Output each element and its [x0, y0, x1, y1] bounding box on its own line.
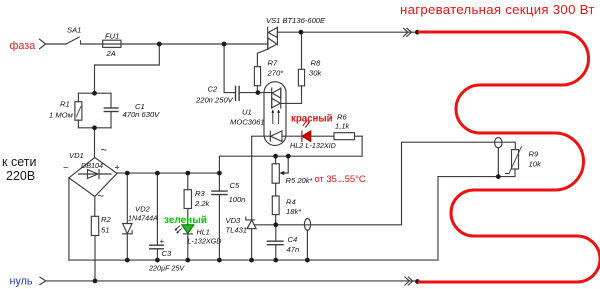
wire нуль chevron: [40, 277, 46, 284]
svg-text:VD3: VD3: [226, 216, 242, 225]
svg-text:C4: C4: [288, 235, 298, 244]
svg-text:+: +: [115, 163, 120, 173]
svg-text:VD2: VD2: [135, 205, 151, 214]
svg-text:220µF 25V: 220µF 25V: [148, 264, 185, 273]
wire opto LED cathode to TL431: [252, 136, 271, 220]
svg-text:R8: R8: [311, 59, 321, 68]
svg-text:2,2k: 2,2k: [194, 199, 211, 208]
wire switch to fuse: [81, 41, 103, 44]
wire fuse to triac: [121, 43, 268, 45]
svg-text:~: ~: [98, 191, 104, 203]
wire to bridge: [94, 128, 96, 158]
capacitor C1: [110, 93, 112, 108]
svg-text:220n 250V: 220n 250V: [195, 96, 234, 105]
svg-text:2A: 2A: [106, 49, 116, 58]
connector oval X1: [304, 219, 310, 231]
svg-text:зеленый: зеленый: [164, 215, 207, 226]
ref wire: [254, 224, 401, 226]
wire phase to switch: [46, 43, 67, 45]
common rail: [69, 259, 438, 261]
svg-text:L-132XGD: L-132XGD: [188, 237, 222, 246]
svg-text:220В: 220В: [6, 169, 35, 183]
svg-text:DB104: DB104: [81, 161, 103, 170]
svg-text:470n 630V: 470n 630V: [123, 110, 161, 119]
chevrons to heater top: [404, 28, 412, 36]
svg-text:30k: 30k: [309, 69, 322, 78]
chevrons to heater bottom: [405, 277, 413, 285]
switch SA1: [66, 37, 79, 44]
svg-text:красный: красный: [291, 113, 333, 124]
resistor R2: [91, 216, 98, 235]
node R1C1 bottom: [78, 127, 111, 129]
svg-text:R3: R3: [195, 189, 205, 198]
svg-text:R1: R1: [60, 100, 70, 109]
svg-text:10k: 10k: [529, 160, 542, 169]
svg-text:VS1 BT136-600E: VS1 BT136-600E: [266, 16, 326, 25]
opto coupling arrows: [273, 112, 279, 124]
zener VD2: [126, 173, 128, 223]
capacitor C2 branch: [224, 44, 235, 93]
wire jog to R1C1: [95, 44, 160, 93]
svg-text:1 МОм: 1 МОм: [49, 110, 74, 119]
wire bridge plus to rail: [117, 172, 219, 174]
bridge rectifier VD1: [69, 158, 117, 197]
svg-text:~: ~: [101, 145, 107, 157]
triac VS1: [267, 27, 269, 49]
svg-text:100n: 100n: [229, 195, 246, 204]
LED HL1 emission arrows: [176, 226, 182, 232]
svg-text:HL2: HL2: [290, 141, 303, 150]
wire triac out: [277, 31, 415, 33]
svg-text:1,1k: 1,1k: [335, 122, 351, 131]
svg-text:FU1: FU1: [105, 32, 119, 41]
fuse FU1: [103, 40, 121, 47]
TL431 VD3: [246, 217, 255, 220]
svg-text:U1: U1: [242, 107, 252, 116]
wire bridge ac bottom to R2: [94, 197, 96, 217]
svg-text:R9: R9: [529, 150, 539, 159]
triac VS1 gate: [257, 49, 267, 66]
LED HL2: [301, 131, 303, 142]
svg-text:47n: 47n: [287, 245, 300, 254]
svg-text:18k*: 18k*: [286, 207, 302, 216]
LED HL1: [182, 225, 194, 234]
svg-text:TL431: TL431: [226, 226, 248, 235]
heating cable: [418, 32, 600, 282]
capacitor C5: [218, 173, 220, 191]
svg-text:R7: R7: [268, 59, 278, 68]
svg-text:нуль: нуль: [10, 275, 33, 287]
svg-text:L-132XID: L-132XID: [306, 141, 336, 150]
resistor R7: [254, 67, 260, 86]
svg-text:нагревательная секция 300 Вт: нагревательная секция 300 Вт: [400, 2, 595, 17]
resistor R3: [187, 173, 189, 190]
capacitor C3: [156, 173, 158, 245]
opto triac: [258, 92, 272, 94]
opto LED: [269, 131, 271, 141]
svg-text:от 35...55°С: от 35...55°С: [315, 173, 366, 184]
svg-text:C3: C3: [162, 249, 172, 258]
svg-text:−: −: [63, 163, 68, 173]
svg-text:SA1: SA1: [67, 26, 81, 35]
capacitor C4: [275, 225, 277, 241]
node фаза input chevron: [40, 39, 46, 49]
optocoupler U1 body: [264, 82, 286, 146]
wire bridge minus down: [68, 178, 70, 260]
LED HL2 emission arrows: [303, 122, 309, 127]
wire riser to node line: [219, 136, 362, 173]
node R1C1 top: [78, 92, 111, 94]
thermistor R9: [512, 150, 519, 169]
connector oval X2: [495, 137, 502, 147]
svg-text:C5: C5: [230, 181, 240, 190]
wire ref to R9: [402, 142, 516, 225]
svg-text:R4: R4: [286, 198, 296, 207]
resistor R6: [334, 133, 355, 140]
svg-text:270*: 270*: [267, 69, 285, 78]
resistor R4: [275, 183, 277, 196]
svg-text:R5 20k*: R5 20k*: [286, 176, 314, 185]
svg-text:1N4744A: 1N4744A: [128, 214, 158, 223]
trimmer R5: [275, 156, 277, 164]
svg-text:+: +: [160, 237, 165, 246]
svg-text:VD1: VD1: [69, 151, 84, 160]
svg-text:R6: R6: [337, 113, 347, 122]
resistor R8: [301, 32, 303, 69]
svg-text:к сети: к сети: [2, 155, 36, 169]
svg-text:R2: R2: [101, 215, 111, 224]
svg-text:C2: C2: [208, 85, 218, 94]
resistor R1: [77, 93, 79, 102]
svg-text:фаза: фаза: [10, 40, 36, 52]
svg-text:HL1: HL1: [197, 228, 210, 237]
svg-text:51: 51: [101, 225, 109, 234]
svg-text:MOC3061: MOC3061: [230, 118, 265, 127]
